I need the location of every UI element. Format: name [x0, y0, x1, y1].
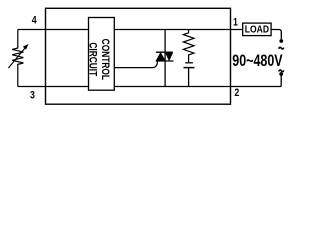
varistor RV1 arrow — [8, 47, 26, 68]
varistor RV1 (variable resistor on input) — [12, 30, 23, 87]
triac Q1 symbol — [156, 52, 174, 61]
triac Q1 vertical branch — [164, 30, 166, 87]
svg-text:90~480V: 90~480V — [232, 52, 282, 70]
wire: top rail (pin4 input to pin1 / LOAD feed) — [18, 29, 243, 31]
SSR package outline — [46, 8, 231, 104]
svg-text:1: 1 — [233, 17, 238, 29]
svg-text:CIRCUIT: CIRCUIT — [86, 42, 98, 76]
wire from LOAD to upper AC terminal — [271, 30, 281, 40]
snubber capacitor C1 top plate — [185, 62, 193, 64]
svg-text:CONTROL: CONTROL — [99, 39, 111, 80]
lower AC terminal dot — [279, 72, 283, 76]
svg-text:2: 2 — [234, 87, 239, 99]
snubber capacitor C1 bottom lead — [188, 68, 190, 87]
gate wire from control circuit to triac — [114, 61, 157, 67]
upper AC terminal dot — [279, 39, 283, 43]
svg-text:LOAD: LOAD — [245, 24, 270, 35]
LOAD box — [243, 23, 271, 35]
snubber resistor R1 — [183, 30, 194, 63]
wire: bottom rail (pin3 input to pin2 / AC return) — [18, 86, 281, 88]
svg-text:3: 3 — [30, 90, 35, 102]
snubber capacitor C1 bottom plate — [184, 67, 195, 69]
control circuit block U1 — [89, 18, 115, 91]
control circuit label — [86, 39, 111, 80]
lower AC tilde — [279, 70, 284, 72]
upper AC tilde — [279, 47, 284, 49]
wire from lower AC terminal to pin 2 — [280, 74, 282, 87]
svg-text:4: 4 — [32, 15, 37, 27]
